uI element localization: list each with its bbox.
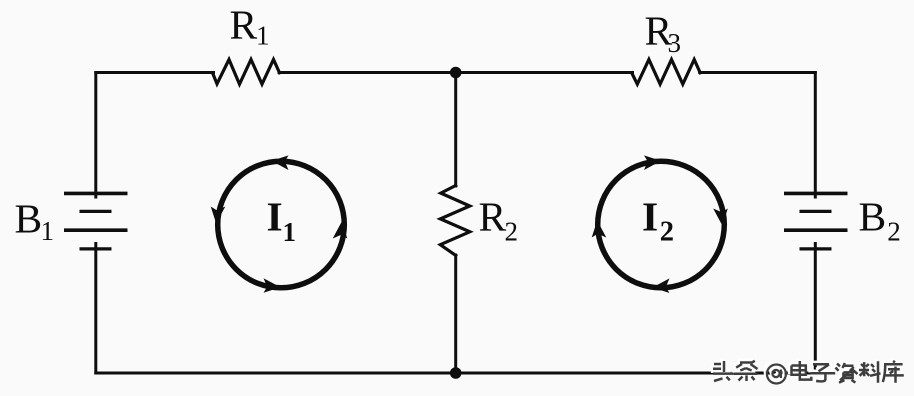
svg-text:1: 1 [256, 21, 270, 51]
wire bottom [96, 372, 816, 375]
svg-text:R: R [479, 194, 507, 240]
wire top-right segment [700, 71, 816, 74]
svg-text:I: I [267, 194, 283, 240]
resistor R2 [440, 186, 470, 256]
label R2 [479, 194, 519, 247]
wire left vertical lower [94, 244, 97, 374]
wire right vertical lower [814, 244, 817, 374]
wire right vertical upper [814, 73, 817, 198]
label I1 [267, 194, 297, 248]
battery B2 [784, 193, 848, 249]
svg-text:I: I [642, 194, 658, 240]
label B1 [15, 196, 55, 247]
svg-text:2: 2 [887, 216, 901, 246]
resistor R3 [632, 60, 701, 85]
mesh current loop I1 (counterclockwise) [211, 155, 348, 292]
svg-text:3: 3 [668, 28, 682, 58]
svg-text:2: 2 [660, 217, 674, 248]
label R1 [230, 2, 270, 51]
node bottom junction [450, 367, 462, 379]
svg-text:R: R [230, 2, 258, 48]
resistor R1 [213, 60, 280, 85]
watermark white highlight layer (offset up-left) [711, 359, 902, 382]
svg-text:1: 1 [41, 216, 55, 246]
mesh current loop I2 (clockwise) [592, 155, 728, 293]
watermark dark top layer [713, 361, 904, 384]
svg-text:1: 1 [283, 217, 297, 247]
wire middle vertical lower [454, 255, 457, 373]
label I2 [642, 194, 674, 248]
wire top-left segment [96, 71, 214, 74]
wire left vertical upper [94, 73, 97, 198]
label R3 [645, 8, 682, 59]
battery B1 [64, 193, 128, 249]
svg-text:2: 2 [505, 216, 519, 246]
wire middle vertical upper [454, 73, 457, 187]
label B2 [859, 194, 901, 247]
wire top-middle segment [279, 71, 633, 74]
node top junction [450, 67, 462, 79]
svg-text:B: B [859, 194, 887, 240]
svg-text:B: B [15, 196, 43, 242]
